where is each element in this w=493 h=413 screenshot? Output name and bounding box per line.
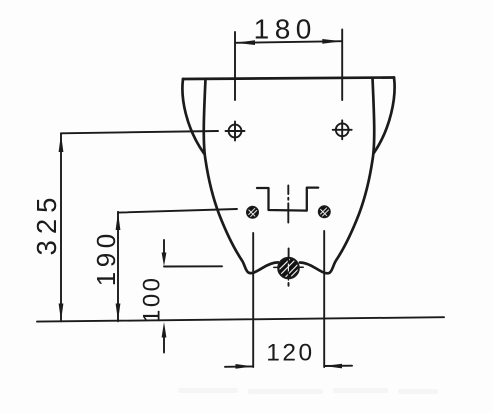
dim 190 arrowhead top	[116, 212, 121, 230]
svg-text:180: 180	[254, 14, 317, 45]
floor line	[37, 317, 444, 321]
dim 325 arrowhead top	[59, 134, 64, 152]
dim 180 extension line left	[234, 32, 236, 100]
dim 120 arrow tail left	[225, 365, 253, 367]
fixture top edge	[183, 78, 394, 80]
fixing hole left (hatched)	[247, 207, 259, 219]
mount hole right (crosshair circle)	[333, 120, 352, 139]
dim 325 arrowhead bottom	[59, 304, 64, 322]
dim 180 extension line right	[341, 30, 343, 101]
dim 325 dimension line	[60, 133, 62, 321]
dim 100 leader to drain level	[164, 265, 222, 267]
dim 100 upper arrow shaft	[163, 240, 165, 255]
dim 120 arrowhead right	[324, 364, 342, 369]
fixing hole right (hatched)	[319, 206, 331, 218]
drain hole (hatched)	[274, 258, 303, 280]
fixture right ear	[374, 78, 395, 154]
dim 190 leader to fixing hole	[118, 209, 237, 213]
centerline (dash-dot)	[287, 186, 289, 286]
dim 100 upper arrowhead	[162, 253, 167, 267]
dim 120 arrow tail right	[325, 365, 353, 367]
dim 100 lower arrowhead	[162, 322, 167, 338]
dim 100 lower arrow shaft	[163, 336, 165, 353]
svg-text:190: 190	[91, 229, 121, 286]
fixture right side outline	[300, 78, 374, 273]
dim 180 arrowhead right	[322, 39, 342, 44]
dim 180 dimension line	[236, 41, 342, 43]
dim 120 arrowhead left	[236, 364, 254, 369]
faint scan smudge at bottom	[178, 388, 438, 394]
flush pipe bracket	[257, 188, 318, 211]
dim 190 arrowhead bottom	[116, 304, 121, 322]
svg-text:100: 100	[139, 275, 166, 323]
dim 120 extension line left	[252, 233, 254, 367]
dim 190 dimension line	[117, 212, 119, 321]
fixture left side outline	[204, 79, 278, 273]
fixture left ear	[182, 79, 204, 154]
dim 325 leader to mount hole	[61, 131, 218, 133]
dim 180 arrowhead left	[235, 40, 255, 45]
mount hole left (crosshair circle)	[226, 122, 245, 141]
dim 120 extension line right	[323, 231, 325, 367]
svg-text:325: 325	[31, 192, 62, 256]
svg-text:120: 120	[266, 340, 314, 367]
